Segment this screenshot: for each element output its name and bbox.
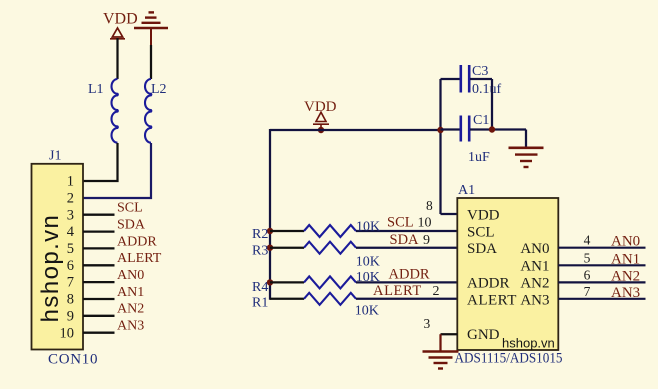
svg-text:10K: 10K xyxy=(355,304,379,319)
wire J1 pin 6 stub xyxy=(83,264,115,266)
svg-text:8: 8 xyxy=(426,198,433,213)
capacitor C3 xyxy=(441,64,502,97)
wire J1 pin 8 stub xyxy=(83,298,115,300)
wire J1 pin 4 stub xyxy=(83,230,115,232)
junction at C1 right xyxy=(489,126,495,132)
svg-text:4: 4 xyxy=(67,224,75,240)
wire J1 pin 9 stub xyxy=(83,315,115,317)
ground (right of C1) xyxy=(509,148,544,167)
wire J1 pin 7 stub xyxy=(83,281,115,283)
wire VDD bus vertical xyxy=(269,129,271,300)
svg-text:SDA: SDA xyxy=(390,232,420,248)
svg-text:L2: L2 xyxy=(151,82,167,97)
svg-text:J1: J1 xyxy=(49,148,61,163)
wire VDD rail horizontal xyxy=(270,129,441,131)
svg-text:A1: A1 xyxy=(458,183,475,198)
svg-text:ADS1115/ADS1015: ADS1115/ADS1015 xyxy=(455,351,563,367)
svg-text:8: 8 xyxy=(67,292,74,308)
svg-text:AN0: AN0 xyxy=(117,268,144,283)
svg-text:R3: R3 xyxy=(252,244,268,259)
svg-text:9: 9 xyxy=(67,308,74,324)
svg-text:hshop.vn: hshop.vn xyxy=(502,336,555,351)
svg-text:2: 2 xyxy=(67,191,74,207)
svg-text:AN3: AN3 xyxy=(611,285,640,301)
power port VDD (top left) xyxy=(103,11,138,39)
wire J1 pin 5 stub xyxy=(83,247,115,249)
svg-text:R2: R2 xyxy=(252,227,268,242)
svg-text:2: 2 xyxy=(433,284,440,299)
wire GND pin to ground xyxy=(441,333,458,335)
svg-text:AN2: AN2 xyxy=(117,302,144,317)
wire C1 row to ground xyxy=(525,130,527,148)
svg-text:10: 10 xyxy=(418,216,432,231)
svg-text:7: 7 xyxy=(67,275,74,291)
svg-text:1: 1 xyxy=(67,174,74,190)
svg-text:R1: R1 xyxy=(252,295,268,310)
inductor L2 xyxy=(145,79,167,143)
svg-text:5: 5 xyxy=(67,241,74,257)
capacitor C1 xyxy=(441,113,527,165)
svg-text:AN1: AN1 xyxy=(611,251,640,267)
svg-text:6: 6 xyxy=(584,267,591,282)
svg-text:4: 4 xyxy=(584,233,591,248)
wire ground to L2 top xyxy=(150,45,152,79)
wire J1 pin 10 stub xyxy=(83,332,115,334)
svg-text:AN0: AN0 xyxy=(611,234,640,250)
svg-text:VDD: VDD xyxy=(467,208,500,224)
svg-text:SCL: SCL xyxy=(117,201,143,216)
svg-text:AN2: AN2 xyxy=(611,268,640,284)
inductor L1 xyxy=(88,79,118,143)
wire C3 right plate down to C1 row xyxy=(491,79,493,130)
wire VDD arrow to L1 top xyxy=(116,38,118,79)
svg-text:AN0: AN0 xyxy=(520,241,549,257)
svg-text:GND: GND xyxy=(467,327,500,343)
svg-text:3: 3 xyxy=(67,207,74,223)
svg-text:L1: L1 xyxy=(88,82,104,97)
svg-text:ALERT: ALERT xyxy=(373,283,422,299)
ground (below IC GND pin) xyxy=(423,352,459,369)
junction at R2 xyxy=(267,228,273,234)
svg-text:6: 6 xyxy=(67,258,74,274)
svg-text:SDA: SDA xyxy=(467,241,497,257)
svg-text:AN1: AN1 xyxy=(520,259,549,275)
svg-text:AN2: AN2 xyxy=(520,276,549,292)
svg-text:10K: 10K xyxy=(356,220,380,235)
svg-text:C1: C1 xyxy=(473,113,489,128)
svg-text:7: 7 xyxy=(584,284,591,299)
wire pin 8 into IC xyxy=(441,213,458,215)
svg-text:ADDR: ADDR xyxy=(117,234,157,249)
svg-text:R4: R4 xyxy=(252,280,268,295)
junction at R3 xyxy=(267,245,273,251)
svg-text:10K: 10K xyxy=(356,255,380,270)
resistor R2 xyxy=(252,220,457,243)
resistor R4 xyxy=(252,270,457,295)
svg-text:1uF: 1uF xyxy=(468,150,490,165)
wire AN0 (pin 4) xyxy=(558,247,645,249)
svg-text:SCL: SCL xyxy=(387,215,414,231)
svg-text:5: 5 xyxy=(584,250,591,265)
junction at R4 xyxy=(267,279,273,285)
svg-text:10: 10 xyxy=(60,325,75,341)
svg-text:AN3: AN3 xyxy=(520,292,549,308)
svg-text:3: 3 xyxy=(424,316,431,331)
svg-text:CON10: CON10 xyxy=(48,352,98,368)
wire AN3 (pin 7) xyxy=(558,298,645,300)
svg-text:AN1: AN1 xyxy=(117,285,144,300)
svg-text:ADDR: ADDR xyxy=(389,267,430,283)
IC A1 ADS1115/ADS1015 body xyxy=(455,183,563,367)
svg-text:9: 9 xyxy=(423,233,430,248)
svg-text:SCL: SCL xyxy=(467,225,495,241)
wire L2 bottom to J1 pin 2 xyxy=(83,143,151,198)
wire VDD bus down to pin 8 (vertical x=440.5) xyxy=(439,79,441,214)
ground (top, above L2) xyxy=(134,12,168,46)
junction at C bus xyxy=(437,127,443,133)
power port VDD (middle) xyxy=(304,99,337,130)
resistor R3 xyxy=(252,242,457,270)
svg-text:ALERT: ALERT xyxy=(467,292,517,308)
svg-text:C3: C3 xyxy=(472,64,488,79)
svg-text:hshop.vn: hshop.vn xyxy=(37,214,64,323)
wire AN1 (pin 5) xyxy=(558,264,645,266)
svg-text:AN3: AN3 xyxy=(117,319,144,334)
svg-text:0.1uf: 0.1uf xyxy=(472,82,502,97)
svg-text:ALERT: ALERT xyxy=(117,251,162,266)
svg-text:VDD: VDD xyxy=(103,11,138,28)
connector J1 body xyxy=(32,148,99,367)
resistor R1 xyxy=(252,293,457,319)
svg-text:ADDR: ADDR xyxy=(467,276,510,292)
wire J1 pin 3 stub xyxy=(83,214,115,216)
svg-text:SDA: SDA xyxy=(117,218,146,233)
wire L1 bottom to J1 pin 1 xyxy=(83,143,118,181)
wire AN2 (pin 6) xyxy=(558,281,645,283)
junction at VDD rail xyxy=(318,127,324,133)
